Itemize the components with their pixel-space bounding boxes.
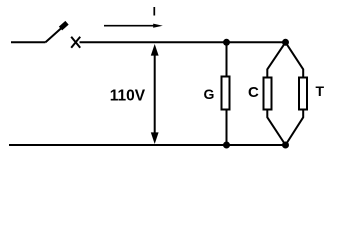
svg-text:T: T	[316, 83, 325, 99]
svg-text:I: I	[153, 4, 156, 18]
svg-text:C: C	[248, 84, 259, 101]
svg-text:110V: 110V	[110, 87, 146, 104]
svg-text:G: G	[204, 86, 215, 102]
